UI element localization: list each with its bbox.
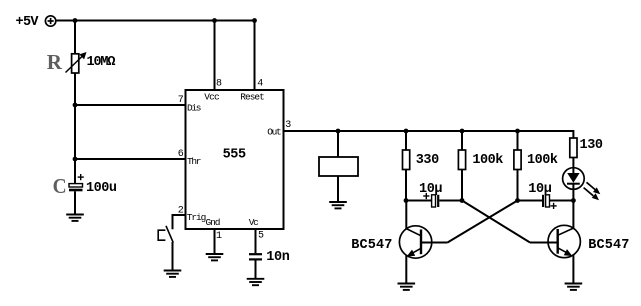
wire Thr node to capacitor C: [74, 159, 76, 184]
wire rail to R top: [74, 21, 76, 55]
wire Thr node to pin6: [75, 158, 186, 160]
wire output rail from pin3: [284, 130, 574, 132]
node junction Dis: [73, 103, 78, 108]
ground under Q1: [398, 284, 416, 290]
wire R130 to LED: [572, 158, 574, 174]
node junction rail/R330: [404, 129, 409, 134]
svg-text:+5V: +5V: [16, 15, 40, 30]
wire rail to R330: [405, 131, 407, 150]
svg-text:10µ: 10µ: [528, 182, 552, 197]
svg-text:330: 330: [416, 153, 440, 168]
capacitor C3 10u polarized: [423, 193, 439, 207]
ground under buzzer: [329, 202, 347, 208]
svg-text:100u: 100u: [86, 181, 117, 196]
svg-text:10n: 10n: [266, 250, 290, 265]
svg-text:3: 3: [285, 120, 291, 131]
svg-text:Reset: Reset: [240, 92, 264, 103]
svg-text:Vc: Vc: [249, 217, 259, 228]
resistor R100k-2: [514, 150, 521, 170]
wire Dis node to pin7: [75, 104, 186, 106]
node A junction: [404, 198, 409, 203]
ground under button: [164, 271, 182, 277]
resistor R 10M variable: [66, 52, 87, 73]
op-amp/timer IC U1 555 body: [186, 90, 284, 229]
push button S1: [158, 226, 173, 243]
ground pin1: [206, 254, 224, 260]
svg-text:Dis: Dis: [187, 102, 202, 113]
wire pin2 to push button: [173, 215, 186, 229]
node junction rail/R: [73, 18, 78, 23]
wire 10n to ground: [255, 260, 257, 278]
wire C to ground: [74, 191, 76, 214]
node junction rail/pin4: [252, 18, 257, 23]
svg-text:100k: 100k: [472, 153, 503, 168]
wire pin5 to capacitor 10n: [255, 229, 257, 253]
node junction rail/pin8: [212, 18, 217, 23]
wire node D to Q2 collector: [572, 201, 574, 230]
wire node A to capacitor 10u-1: [406, 200, 432, 202]
svg-text:Out: Out: [267, 126, 282, 137]
buzzer/speaker LS1: [319, 157, 358, 176]
node junction Thr: [73, 157, 78, 162]
capacitor C4 10u polarized: [542, 195, 557, 209]
wire rail to buzzer: [337, 131, 339, 157]
wire +5V rail: [56, 20, 255, 22]
LED D1: [563, 168, 601, 201]
svg-text:BC547: BC547: [588, 238, 629, 253]
wire Q2 base: [530, 242, 558, 244]
svg-text:6: 6: [178, 149, 184, 160]
svg-text:555: 555: [223, 147, 247, 162]
svg-text:10MΩ: 10MΩ: [87, 55, 116, 70]
ground under Q2: [565, 284, 583, 290]
wire R bottom to Dis node: [74, 73, 76, 106]
capacitor C 100u electrolytic: [69, 174, 84, 191]
svg-text:5: 5: [258, 231, 264, 242]
svg-text:100k: 100k: [527, 153, 558, 168]
wire Dis node to Thr node: [74, 105, 76, 159]
wire R330 to node A: [405, 170, 407, 201]
capacitor C2 10n: [249, 254, 262, 259]
wire Q2 emitter to ground: [572, 255, 574, 283]
resistor R330: [403, 150, 410, 170]
wire diagonal Q1 base to node C: [448, 201, 518, 243]
resistor R130: [570, 138, 577, 158]
wire button to ground: [172, 242, 174, 270]
wire rail to R100k-1: [461, 131, 463, 150]
svg-text:7: 7: [178, 95, 184, 106]
svg-text:4: 4: [257, 79, 263, 90]
svg-text:1: 1: [216, 231, 222, 242]
svg-text:BC547: BC547: [351, 238, 392, 253]
wire rail to R100k-2: [517, 131, 519, 150]
node junction rail/buzzer: [336, 129, 341, 134]
wire LED to node D: [572, 184, 574, 201]
wire R100k-1 to node B: [461, 170, 463, 201]
ground under C: [66, 215, 84, 221]
wire node C to capacitor 10u-2: [518, 200, 543, 202]
svg-text:Gnd: Gnd: [206, 217, 221, 228]
resistor R100k-1: [458, 150, 465, 170]
svg-text:Vcc: Vcc: [204, 92, 220, 103]
power supply +5V terminal: [45, 16, 55, 26]
ground under 10n: [247, 279, 265, 285]
node D junction: [571, 198, 576, 203]
wire pin1 to ground: [214, 229, 216, 254]
wire rail corner to R130: [572, 130, 574, 138]
node C junction: [515, 198, 520, 203]
wire R100k-2 to node C: [517, 170, 519, 201]
wire diagonal node B to Q2 base: [462, 201, 530, 243]
svg-text:C: C: [53, 174, 67, 198]
svg-text:10µ: 10µ: [419, 182, 443, 197]
svg-text:8: 8: [216, 79, 222, 90]
node junction rail/R100k-1: [460, 129, 465, 134]
transistor Q1 BC547: [399, 226, 431, 258]
svg-text:Trig: Trig: [187, 212, 207, 223]
wire Q1 base: [421, 242, 448, 244]
wire node A to Q1 collector: [405, 201, 407, 230]
wire 10u-1 to node B: [439, 200, 462, 202]
node B junction: [460, 198, 465, 203]
wire buzzer to ground: [337, 176, 339, 202]
node junction rail/R100k-2: [515, 129, 520, 134]
svg-text:R: R: [47, 50, 63, 74]
svg-text:130: 130: [580, 138, 604, 153]
wire pin4 to rail: [254, 21, 256, 91]
svg-text:Thr: Thr: [187, 156, 202, 167]
wire 10u-2 to node D: [550, 200, 574, 202]
wire Q1 emitter to ground: [405, 256, 407, 284]
wire pin8 to rail: [214, 21, 216, 91]
transistor Q2 BC547: [548, 225, 580, 257]
